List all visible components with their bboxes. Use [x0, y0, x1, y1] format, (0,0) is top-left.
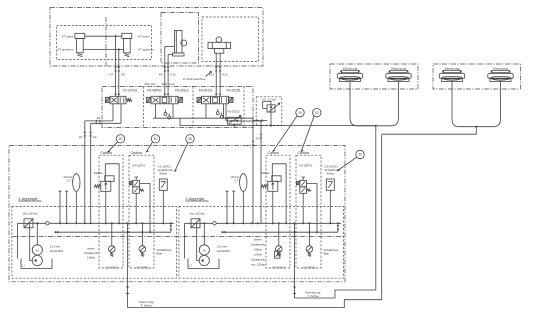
wire: aggregat 2 clamp outlet riser: [294, 223, 296, 232]
wire: aggregat 2 drain bus: [223, 231, 338, 233]
valve V1 C2-04731 (4/2 solenoid): [105, 97, 110, 102]
svg-text:4. Achse: 4. Achse: [141, 303, 153, 307]
wire: valve bank lower bus: [153, 117, 253, 119]
svg-text:F6-09151: F6-09151: [227, 89, 241, 93]
wire pump riser aggregat 2: [203, 223, 205, 245]
balloon 10 (right): [313, 108, 321, 116]
wire A2 to aggregat 1: [90, 123, 92, 223]
svg-text:KT lösen: KT lösen: [62, 35, 74, 39]
wire K12 from actuator D2: [219, 53, 221, 93]
coupling K8: [118, 67, 121, 72]
motor M (aggregat 2): [199, 245, 209, 255]
leader balloon 10 left: [146, 142, 153, 153]
wire: clamp feed line to Klemmung groups: [180, 125, 376, 127]
leader balloon 20 left: [108, 142, 118, 153]
svg-text:Schaltpunkt: Schaltpunkt: [251, 243, 265, 247]
svg-text:A3: A3: [256, 137, 260, 141]
wire clamp K41 drop: [350, 82, 376, 126]
enclosure: aggregat 1 (dashed): [12, 206, 177, 278]
wire: aggregat 1 clamp outlet: [127, 232, 129, 307]
wire K8 down to valve V1: [118, 50, 120, 94]
stub V3 port P: [205, 104, 207, 118]
port arrow K9: [164, 94, 167, 97]
leader balloon 30 right: [337, 157, 357, 171]
svg-text:A2: A2: [93, 135, 97, 139]
coupling K7: [114, 67, 117, 72]
divider machine sections: [105, 17, 107, 66]
node on rod-side header: [114, 35, 116, 37]
svg-text:F6-20315: F6-20315: [228, 109, 240, 113]
enclosure: valve manifold block (dash-dot): [102, 86, 253, 127]
gauge G (aggregat 1): [46, 222, 49, 225]
cylinder Z1 (KT clamp 1): [75, 33, 85, 38]
node bus/V3 wire: [225, 117, 227, 119]
stub feed line to bus: [179, 118, 181, 125]
relief valve DB (aggregat 2) 150bar: [272, 164, 286, 224]
svg-text:unterer: unterer: [254, 253, 263, 257]
test riser M1 aggregat 1: [59, 191, 62, 223]
wire valve WV riser aggregat 1: [135, 193, 137, 223]
svg-text:K10: K10: [170, 73, 176, 77]
svg-text:Option: Option: [131, 150, 143, 155]
wire clamp K42 drop: [376, 82, 399, 126]
svg-text:8bar: 8bar: [324, 251, 330, 255]
wire: cylinder piston-side header: [83, 49, 123, 51]
check unit CV1 (aggregat 1) G3-01FV1: [111, 223, 113, 245]
port arrow K12: [219, 94, 222, 97]
pump P (aggregat 2): [199, 255, 209, 265]
coupling P1 upper: [96, 120, 101, 123]
filter F (aggregat 1) 10u: [24, 219, 33, 228]
svg-text:KT lösen: KT lösen: [138, 35, 150, 39]
leader balloon 10 right: [301, 116, 314, 152]
enclosure: turret actuator (dashed): [202, 17, 259, 62]
pump P (aggregat 1): [32, 255, 42, 265]
svg-text:150bar: 150bar: [94, 171, 103, 175]
wire pump riser aggregat 1: [36, 223, 38, 245]
svg-text:115bar: 115bar: [87, 256, 95, 260]
node flow control on feed line: [233, 124, 235, 125]
wire K9 from actuator D1: [165, 47, 175, 94]
svg-text:min. 125bar: min. 125bar: [251, 263, 265, 267]
balloon 20 (right): [296, 108, 304, 116]
port arrow K11: [215, 94, 218, 97]
wire clamp K72 drop: [476, 82, 500, 127]
svg-text:G3-01FV1: G3-01FV1: [105, 266, 118, 270]
valve V3 F6-09121/F6-09151 (5/3 double solenoid): [197, 97, 202, 102]
svg-text:F6-09121: F6-09121: [199, 89, 213, 93]
check unit CV2 (aggregat 1) G3-01F01: [141, 223, 143, 245]
svg-text:7. Achse: 7. Achse: [307, 294, 319, 298]
svg-text:10: 10: [315, 111, 319, 115]
wire: Klemmung 7.Achse run (group1 to aggregat2): [295, 126, 376, 298]
svg-text:KT spannen: KT spannen: [138, 48, 154, 52]
svg-text:1 l.: 1 l.: [189, 264, 193, 268]
wire P1 supply upper: [85, 104, 113, 121]
svg-text:90bar: 90bar: [160, 172, 167, 176]
wire from V3 to A3: [226, 104, 261, 121]
svg-text:2x Drehmaschine: 2x Drehmaschine: [183, 77, 206, 81]
svg-text:oberer: oberer: [87, 247, 95, 251]
pressure reducing valve DR1: [267, 105, 275, 112]
stub V2 port T: [172, 104, 174, 118]
coupling A1: [84, 132, 87, 137]
coupling K9: [164, 67, 167, 72]
enclosure: Option box 2 aggregat 1: [129, 155, 154, 268]
wire DR1 to feed line: [270, 112, 272, 126]
test point M4: [168, 116, 171, 119]
wire: aggregat 2 pressure main line: [185, 222, 342, 224]
wire: cylinder rod-side header: [85, 35, 122, 37]
enclosure: Klemmung group 1 (dash-dot): [330, 64, 418, 89]
wire A3 to aggregat 2: [260, 121, 262, 223]
wire pressure switch riser aggregat 2: [329, 190, 331, 223]
coupling on 7.Achse wire: [293, 287, 296, 294]
enclosure: swing actuator (dash-dot): [161, 13, 199, 64]
svg-text:F6-09111: F6-09111: [175, 89, 189, 93]
wire valve WV riser aggregat 2: [302, 193, 304, 223]
svg-text:K9: K9: [159, 73, 163, 77]
svg-text:G3-01M01: G3-01M01: [50, 249, 64, 253]
svg-text:1 l.: 1 l.: [22, 264, 26, 268]
enclosure: aggregat 2 (dashed): [179, 206, 344, 278]
port arrow K7: [114, 94, 117, 97]
leader balloon 20 right: [273, 116, 298, 152]
enclosure: Option box 1 aggregat 2: [266, 155, 290, 268]
wire: aggregat 1 pressure main line: [18, 222, 175, 224]
svg-text:K8: K8: [121, 73, 125, 77]
svg-text:P1: P1: [97, 116, 101, 120]
node A-line 1 aggregat 1: [84, 222, 86, 224]
svg-text:1.Aggregat: 1.Aggregat: [18, 196, 38, 201]
wire pump suction aggregat 1: [30, 223, 33, 260]
test riser M2 aggregat 1: [65, 191, 68, 223]
node A-line 1 aggregat 2: [251, 222, 253, 224]
svg-text:Option: Option: [101, 150, 113, 155]
svg-text:2.Aggregat: 2.Aggregat: [185, 196, 205, 201]
svg-text:G3-01F01: G3-01F01: [136, 266, 149, 270]
wire: aggregat 1 clamp outlet riser: [127, 223, 129, 232]
coupling K12: [219, 67, 222, 72]
wire A4 to aggregat 2: [252, 118, 254, 223]
coupling A2: [89, 132, 92, 137]
test point M6: [220, 115, 223, 118]
wire: aggregat 1 drain bus riser / coupling: [170, 223, 172, 232]
check unit CV2 (aggregat 2) G3-02F01: [308, 223, 310, 245]
balloon 20 (left): [116, 135, 124, 143]
node on piston-side header: [118, 48, 120, 50]
pressure switch DS3 (aggregat 2 extra): [275, 251, 281, 258]
svg-text:G3-0SFV1: G3-0SFV1: [299, 164, 313, 168]
wire WV side branch aggregat 1: [140, 184, 151, 233]
leader balloon 30 left: [175, 142, 188, 172]
svg-text:Option: Option: [298, 150, 310, 155]
enclosure: pressure reducer (dashed): [256, 97, 282, 126]
svg-text:0,7 l: 0,7 l: [67, 179, 73, 183]
accumulator SP (aggregat 2): [240, 174, 247, 192]
svg-text:Option: Option: [268, 150, 280, 155]
test point M5: [216, 112, 219, 115]
svg-text:oberer: oberer: [254, 238, 262, 242]
wire: aggregat 1 tank return drop: [17, 223, 19, 258]
stub V2 port P: [155, 104, 157, 118]
coupling K11: [215, 67, 218, 72]
separator manifold segment 1/2: [143, 86, 145, 127]
accumulator SP (aggregat 1): [73, 174, 80, 192]
svg-text:10: 10: [154, 137, 158, 141]
svg-text:C2-04731: C2-04731: [123, 89, 138, 93]
svg-text:Schaltpunkt: Schaltpunkt: [251, 258, 265, 262]
wire P1 supply lower: [91, 104, 121, 124]
tank T (aggregat 2): [188, 259, 219, 269]
enclosure: Klemmung group 2 (dash-dot): [433, 64, 521, 89]
boundary: pump sub-assembly line (dash-dot): [12, 236, 344, 238]
wire pressure switch riser aggregat 1: [162, 190, 164, 223]
wire: aggregat 2 drain bus riser / coupling: [337, 223, 339, 232]
balloon 10 (left): [151, 135, 159, 143]
svg-text:G3-1SFV1: G3-1SFV1: [132, 164, 146, 168]
pilot line DR1: [263, 102, 271, 109]
svg-text:F6-08P51: F6-08P51: [147, 89, 162, 93]
wire K11 from actuator D2: [215, 53, 217, 93]
svg-text:K12: K12: [222, 73, 228, 77]
svg-text:G3-02F01: G3-02F01: [303, 266, 316, 270]
svg-text:20: 20: [298, 111, 302, 115]
svg-text:150bar: 150bar: [261, 171, 270, 175]
svg-text:Schaltpunkt: Schaltpunkt: [84, 251, 98, 255]
node Klemmung group 2: [475, 126, 477, 128]
balloon 30 (left): [186, 135, 194, 143]
actuator D2 (turret clamp): [216, 37, 222, 43]
svg-text:G3-02M01: G3-02M01: [217, 249, 231, 253]
svg-text:G3-02FV1: G3-02FV1: [272, 266, 285, 270]
actuator D1 (swing clamp): [175, 31, 183, 54]
wire clamp K71 drop: [452, 82, 476, 127]
test riser M2 aggregat 2: [232, 191, 235, 223]
svg-text:3,7 l: 3,7 l: [234, 179, 240, 183]
svg-text:90bar: 90bar: [327, 172, 334, 176]
node A-line 2 aggregat 1: [90, 222, 92, 224]
tank T (aggregat 1): [21, 259, 52, 269]
enclosure: Option box 2 aggregat 2: [296, 155, 321, 268]
svg-text:20: 20: [119, 137, 123, 141]
svg-text:Wkz löst: Wkz löst: [145, 82, 156, 86]
enclosure: hydraulic power units (dash-dot): [9, 146, 345, 282]
port arrow K8: [118, 94, 121, 97]
separator manifold segment 3/4: [243, 86, 245, 127]
wire: Klemmung 4.Achse run (group2 to aggregat1): [128, 134, 382, 307]
svg-text:KT spannen: KT spannen: [57, 48, 73, 52]
coupling A3: [260, 134, 263, 139]
wire reducer side tap: [253, 120, 268, 122]
motor M (aggregat 1): [32, 245, 42, 255]
coupling P1 lower: [96, 122, 101, 125]
port arrow K10: [167, 94, 170, 97]
stub V3 port T: [223, 104, 225, 118]
svg-text:K7: K7: [110, 73, 114, 77]
svg-text:A1: A1: [79, 135, 83, 139]
svg-text:8bar: 8bar: [157, 251, 163, 255]
gauge G (aggregat 2): [213, 222, 216, 225]
enclosure: machine boundary (dash-dot): [50, 7, 263, 66]
cylinder Z2 (KT clamp 2): [122, 33, 132, 38]
test point M3: [164, 112, 167, 115]
test riser M1 aggregat 2: [226, 191, 229, 223]
wire K10 from actuator D1: [168, 55, 172, 94]
coupling on 4.Achse wire: [126, 287, 129, 294]
node A-line 2 aggregat 2: [257, 222, 259, 224]
enclosure: clamp cylinders group (dashed): [57, 26, 152, 60]
wire: aggregat 1 drain bus: [56, 231, 171, 233]
wire A1 to aggregat 1: [84, 121, 86, 223]
coupling A4: [252, 141, 255, 146]
check unit CV1 (aggregat 2) G3-02FV1: [278, 223, 280, 245]
wire: aggregat 2 clamp outlet: [294, 232, 296, 298]
svg-text:140bar: 140bar: [254, 248, 262, 252]
wire: aggregat 2 tank return drop: [184, 223, 186, 258]
coupling K10: [167, 67, 170, 72]
svg-text:30: 30: [358, 153, 362, 157]
svg-text:30: 30: [188, 137, 192, 141]
wire WV side branch aggregat 2: [307, 184, 318, 233]
svg-text:10µ 115 bar: 10µ 115 bar: [23, 212, 38, 216]
separator manifold segment 2/3: [192, 86, 194, 127]
wire group 2 to cross-run: [382, 127, 477, 135]
wire K7 down to valve V1: [115, 36, 117, 93]
wire pump suction aggregat 2: [197, 223, 200, 260]
relief valve DB (aggregat 1) 150bar: [105, 164, 119, 224]
svg-text:10µ 115 bar: 10µ 115 bar: [190, 212, 205, 216]
node Klemmung group 1: [375, 125, 377, 127]
valve V2 F6-08P51/F6-09111 (5/3 double solenoid): [147, 97, 152, 102]
enclosure: Option box 1 aggregat 1: [99, 155, 123, 268]
balloon 30 (right): [356, 150, 364, 158]
svg-text:Wkz unten: Wkz unten: [162, 82, 176, 86]
filter F (aggregat 2) 10u: [191, 219, 200, 228]
